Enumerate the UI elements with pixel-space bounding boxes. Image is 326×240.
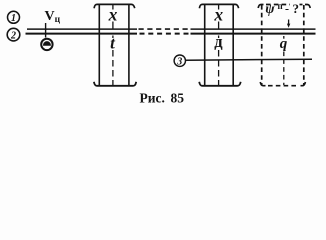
tick from V_ц down to rail xyxy=(45,23,47,38)
circled label 3 xyxy=(174,55,185,68)
svg-text:Vц: Vц xyxy=(45,9,61,25)
svg-text:п: п xyxy=(278,1,283,11)
leader line from circled 3 to the right xyxy=(186,59,312,60)
arrow from label down to rail xyxy=(287,20,290,28)
dashed column right wall xyxy=(303,5,305,85)
svg-text:x: x xyxy=(213,4,223,24)
column 2 bottom cap with flared ends xyxy=(199,82,241,86)
svg-text:85: 85 xyxy=(171,91,185,106)
double rail line, top rail xyxy=(27,28,316,30)
svg-text:3: 3 xyxy=(176,57,182,68)
circled label 2 xyxy=(7,28,20,41)
svg-text:д: д xyxy=(214,32,223,51)
svg-text:Рис.: Рис. xyxy=(140,91,165,106)
svg-text:q: q xyxy=(280,36,288,52)
column 2 right wall xyxy=(232,5,234,86)
column 1 bottom cap with flared ends xyxy=(94,82,136,86)
ring-and-ball symbol under rail xyxy=(41,39,52,50)
dashed column axis below rail xyxy=(283,36,285,85)
column 1 top cap with flared ends xyxy=(94,4,135,8)
dashed column left wall xyxy=(261,5,263,85)
svg-text:t: t xyxy=(110,34,116,53)
dashed column bottom cap xyxy=(260,82,305,86)
column 1 dashed axis xyxy=(112,5,114,85)
circled label 1 xyxy=(8,11,20,24)
double rail line, bottom rail xyxy=(26,33,316,35)
column 1 right wall xyxy=(128,5,130,86)
column 1 left wall xyxy=(98,5,100,86)
svg-text:x: x xyxy=(108,4,118,24)
svg-text:1: 1 xyxy=(11,13,16,24)
column 2 dashed axis xyxy=(218,5,220,85)
column 2 top cap with flared ends xyxy=(199,4,238,8)
svg-text:2: 2 xyxy=(10,31,16,42)
svg-text:ψ: ψ xyxy=(265,2,275,17)
column 2 left wall xyxy=(204,5,206,86)
svg-text:-: - xyxy=(285,2,289,16)
dashed column top cap xyxy=(258,5,310,9)
svg-text:?: ? xyxy=(293,1,300,16)
